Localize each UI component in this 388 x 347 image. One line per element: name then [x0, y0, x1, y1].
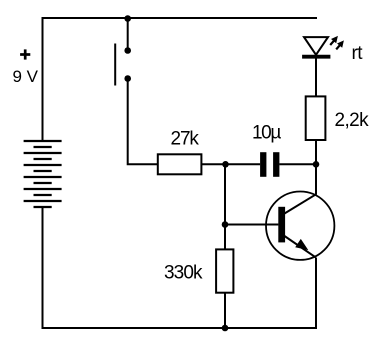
node bottom junction: [222, 325, 229, 332]
resistor 330k: [216, 249, 233, 292]
label + polarity: [20, 49, 30, 59]
node capacitor left junction: [222, 161, 229, 168]
wire emitter to bottom rail: [315, 258, 317, 329]
label 9 V: [13, 67, 39, 86]
node base junction: [222, 221, 229, 228]
svg-text:rt: rt: [352, 43, 364, 64]
label 10u: [252, 123, 281, 144]
wire switch top: [127, 18, 129, 51]
wire capacitor to right rail: [279, 163, 316, 165]
wire node to base branch vertical: [224, 164, 226, 250]
capacitor C1 10u: [260, 152, 279, 177]
svg-text:2,2k: 2,2k: [335, 110, 370, 131]
LED D1: [302, 37, 330, 57]
wire 27k to capacitor: [201, 163, 260, 165]
wire 2.2k to node: [315, 140, 317, 165]
wire LED to 2.2k: [315, 58, 317, 97]
resistor 2.2k: [306, 96, 326, 140]
LED light arrows: [330, 36, 344, 50]
wire 330k to bottom rail: [224, 293, 226, 329]
svg-text:330k: 330k: [164, 263, 203, 284]
transistor Q1: [266, 192, 334, 260]
wire bottom rail: [42, 327, 318, 329]
node top junction: [124, 15, 131, 22]
label 27k: [171, 128, 200, 149]
label 2,2k: [335, 110, 370, 131]
wire base: [225, 224, 278, 226]
resistor 27k: [158, 154, 202, 174]
svg-text:27k: 27k: [171, 128, 200, 149]
label rt: [352, 43, 364, 64]
switch S1 pushbutton: [115, 44, 131, 86]
battery 9V: [24, 141, 62, 207]
wire left rail upper: [42, 17, 44, 141]
wire left rail lower: [42, 207, 44, 330]
wire top rail: [42, 17, 318, 19]
label 330k: [164, 263, 203, 284]
svg-text:9 V: 9 V: [13, 67, 39, 86]
svg-text:10µ: 10µ: [252, 123, 281, 144]
wire node to collector: [315, 164, 317, 195]
wire switch to 27k: [128, 79, 158, 165]
node right rail junction: [313, 161, 320, 168]
